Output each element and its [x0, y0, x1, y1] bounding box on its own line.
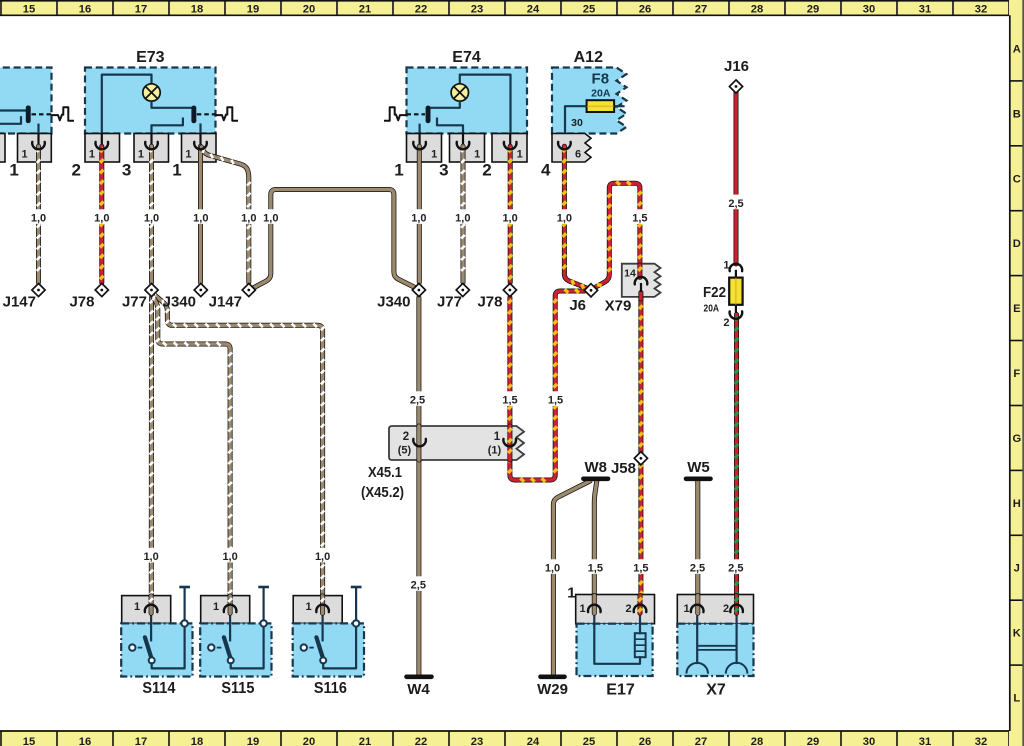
ground point W29 bar [541, 674, 565, 679]
svg-text:F: F [1013, 368, 1020, 380]
svg-text:32: 32 [975, 3, 987, 15]
svg-text:H: H [1013, 498, 1021, 510]
wire over X45.1 (red/yellow segment) [507, 426, 512, 460]
wire: E73 pin3 to J340 (brown) [198, 146, 203, 282]
svg-text:21: 21 [359, 3, 371, 15]
svg-text:1,0: 1,0 [455, 213, 470, 225]
E17 pin 1 cup [588, 605, 601, 612]
svg-text:15: 15 [23, 736, 35, 746]
node J78 (left) [95, 283, 108, 296]
svg-text:J77: J77 [122, 294, 147, 311]
ground point W8 bar [583, 476, 608, 481]
flasher pulse symbol (E74) [385, 107, 407, 121]
svg-text:32: 32 [975, 736, 987, 746]
svg-text:B: B [1013, 108, 1021, 120]
switch module pin box (partial) [0, 134, 5, 163]
node J58 [634, 452, 647, 465]
svg-text:14: 14 [624, 268, 636, 280]
svg-text:26: 26 [639, 736, 651, 746]
E74 contact line from pin 1 [419, 125, 421, 146]
flasher pulse symbol (left module) [52, 107, 74, 121]
svg-text:C: C [1013, 173, 1021, 185]
svg-text:1: 1 [683, 603, 689, 615]
svg-text:1: 1 [474, 149, 480, 161]
svg-text:1,0: 1,0 [144, 213, 159, 225]
svg-text:E17: E17 [606, 682, 635, 699]
svg-text:1,0: 1,0 [263, 213, 278, 225]
svg-text:A12: A12 [574, 49, 603, 66]
svg-text:E: E [1013, 303, 1021, 315]
wire: bridge J147 to J340 (brown) [254, 190, 416, 289]
S115 wire tip [228, 596, 233, 613]
svg-text:J: J [1014, 563, 1020, 575]
svg-text:J78: J78 [69, 294, 94, 311]
svg-text:G: G [1012, 433, 1021, 445]
svg-text:29: 29 [807, 3, 819, 15]
svg-text:X7: X7 [706, 682, 726, 699]
S114 wire tip [149, 596, 154, 613]
A12 pin 6 cup [558, 142, 571, 149]
lamp unit E17 [576, 595, 655, 677]
svg-text:A: A [1013, 44, 1021, 56]
svg-text:17: 17 [135, 3, 147, 15]
E74 pin 2 cup [504, 142, 517, 149]
svg-text:23: 23 [471, 736, 483, 746]
wire: J78 through X45.1 pin1, loop up to J6 (red/yellow) [510, 291, 585, 480]
svg-text:1,5: 1,5 [502, 395, 517, 407]
svg-text:J340: J340 [163, 294, 196, 311]
wire: E73 pin3 diagonal to J147 (brown/white) [202, 147, 249, 283]
X45.1 pin 2 contact cup [413, 439, 426, 446]
switch module dashed actuation link [32, 113, 52, 115]
svg-text:20A: 20A [704, 303, 720, 315]
svg-text:S115: S115 [221, 680, 254, 697]
E74 indicator lamp [451, 84, 468, 101]
turn-signal switch E74 [407, 68, 528, 134]
svg-text:J340: J340 [377, 294, 410, 311]
E73 pin 3 cup [194, 142, 207, 149]
E73 indicator lamp wire to pin 1 [102, 75, 152, 146]
svg-text:31: 31 [919, 3, 931, 15]
svg-text:20A: 20A [591, 88, 611, 100]
E73 contact line from pin 3 [199, 125, 201, 147]
svg-text:30: 30 [863, 3, 875, 15]
svg-text:22: 22 [415, 736, 427, 746]
svg-text:J78: J78 [477, 294, 502, 311]
S116 wire tip [320, 596, 325, 613]
X7 pin2 wire tip [734, 596, 739, 614]
svg-text:2,5: 2,5 [410, 395, 425, 407]
E73 fixed contact from pin 2 [152, 119, 183, 146]
wire: X79 down through J58 to E17 pin2 (red/yellow) [638, 293, 643, 614]
svg-text:1,5: 1,5 [633, 563, 648, 575]
node J78 (second) [503, 283, 516, 296]
switch module fixed contact with tick [0, 117, 21, 124]
svg-text:1,0: 1,0 [193, 213, 208, 225]
svg-text:28: 28 [751, 3, 763, 15]
E73 dashed actuation link [197, 113, 216, 115]
svg-text:1: 1 [394, 161, 403, 180]
svg-text:24: 24 [527, 3, 540, 15]
wire: J340 down through X45.1 pin2 to ground W4 (brown) [416, 298, 421, 675]
F22 bottom contact cup [735, 305, 737, 313]
top ruler grid band [0, 0, 1024, 16]
connector X79 pin 14 (torn) [622, 264, 661, 297]
svg-text:2,5: 2,5 [411, 580, 426, 592]
wire: E74 pin3 to J77 (brown/white) [461, 146, 466, 282]
svg-text:2: 2 [625, 603, 631, 615]
svg-text:1,0: 1,0 [222, 551, 237, 563]
svg-text:2,5: 2,5 [690, 563, 705, 575]
svg-text:W5: W5 [687, 459, 710, 476]
svg-text:27: 27 [695, 736, 707, 746]
svg-text:2,5: 2,5 [728, 563, 743, 575]
svg-text:2: 2 [403, 431, 409, 443]
svg-text:1: 1 [138, 149, 144, 161]
E74 pin box 1 [407, 134, 442, 163]
node J147 (left) [32, 283, 45, 296]
svg-text:W4: W4 [407, 681, 430, 698]
svg-text:X45.1: X45.1 [368, 464, 402, 481]
svg-text:31: 31 [919, 736, 931, 746]
svg-text:1: 1 [213, 601, 219, 613]
svg-text:18: 18 [191, 736, 203, 746]
bottom ruler grid band [0, 730, 1024, 746]
connector X45.1 (X45.2) [389, 426, 524, 460]
svg-text:20: 20 [303, 3, 315, 15]
switch module pin 1 contact line [37, 125, 39, 134]
wire over X45.1 (brown W4 segment) [416, 426, 421, 460]
svg-text:1,5: 1,5 [588, 563, 603, 575]
svg-text:16: 16 [79, 3, 91, 15]
svg-text:30: 30 [571, 117, 583, 129]
wire: J77 to S116 (brown/white) [152, 293, 323, 614]
node J77 (left) [145, 283, 158, 296]
svg-text:X79: X79 [605, 298, 632, 315]
wire: W8 to W29 (brown) [553, 481, 590, 675]
svg-text:1,0: 1,0 [411, 213, 426, 225]
svg-text:3: 3 [439, 161, 448, 180]
wire: E73 pin2 to J77 (brown/white) [149, 146, 154, 282]
wire: W8 to E17 pin1 (brown) [594, 481, 597, 614]
svg-text:1,0: 1,0 [315, 551, 330, 563]
fuse box A12 (torn right edge) [552, 68, 627, 134]
node J6 [584, 284, 597, 297]
svg-text:J6: J6 [569, 297, 586, 314]
node J340 (left) [194, 283, 207, 296]
svg-text:21: 21 [359, 736, 371, 746]
svg-text:J147: J147 [3, 294, 36, 311]
svg-text:1: 1 [567, 585, 575, 602]
S115 pin contact cup [224, 605, 237, 612]
wire: J77 to S115 (brown/white) [152, 295, 230, 614]
E17 pin2 wire tip [638, 596, 643, 614]
right letter column band [1009, 0, 1024, 746]
svg-text:20: 20 [303, 736, 315, 746]
svg-text:18: 18 [191, 3, 203, 15]
svg-text:2: 2 [71, 161, 80, 180]
E74 pin box 3 [450, 134, 485, 163]
svg-text:4: 4 [541, 161, 551, 180]
svg-text:1,0: 1,0 [502, 213, 517, 225]
E17 pin1 wire tip [592, 596, 597, 614]
svg-text:22: 22 [415, 3, 427, 15]
svg-text:J77: J77 [437, 294, 462, 311]
X7 pin 2 cup [730, 605, 743, 612]
E74 pin box 2 [492, 134, 527, 163]
svg-text:17: 17 [135, 736, 147, 746]
svg-text:23: 23 [471, 3, 483, 15]
wire: left module pin to J147 (brown/white) [36, 146, 41, 282]
flasher pulse symbol (E73) [216, 107, 238, 121]
svg-text:27: 27 [695, 3, 707, 15]
wire: J16 to fuse F22 (red) [734, 93, 739, 265]
svg-text:2: 2 [723, 317, 729, 329]
svg-text:1,5: 1,5 [548, 395, 563, 407]
E74 dashed actuation link [407, 113, 426, 115]
svg-text:19: 19 [247, 736, 259, 746]
E73 pin box 3 [182, 134, 217, 163]
E74 indicator lamp wire to pin 2 [460, 75, 511, 146]
X45.1 pin 1 contact cup [503, 439, 516, 446]
svg-text:1,0: 1,0 [143, 551, 158, 563]
svg-text:1: 1 [517, 149, 523, 161]
wire into X79 (red/yellow tip) [637, 265, 642, 277]
svg-text:K: K [1013, 628, 1021, 640]
E73 lamp to switch bar line [152, 101, 192, 108]
svg-text:1: 1 [579, 603, 585, 615]
svg-text:F8: F8 [592, 71, 610, 88]
svg-text:1,0: 1,0 [31, 213, 46, 225]
door contact switch S114 [121, 587, 192, 677]
svg-text:15: 15 [23, 3, 35, 15]
ground point W4 bar [407, 674, 432, 679]
svg-text:1: 1 [134, 601, 140, 613]
svg-text:1: 1 [89, 149, 95, 161]
wire: A12 pin 4 to J6 (red/yellow) [564, 146, 586, 287]
svg-text:1,5: 1,5 [632, 213, 647, 225]
wire: E74 pin1 to J340 (brown) [417, 146, 422, 282]
svg-text:(1): (1) [488, 445, 502, 457]
svg-text:2: 2 [482, 161, 491, 180]
svg-text:S116: S116 [314, 680, 347, 697]
fuse F22 body [729, 278, 742, 305]
wire: E73 pin1 to J78 (red/yellow) [99, 146, 104, 282]
E74 pin 3 cup [457, 142, 470, 149]
svg-text:1,0: 1,0 [557, 213, 572, 225]
svg-text:F22: F22 [703, 284, 726, 301]
svg-text:1,0: 1,0 [94, 213, 109, 225]
left module pin cup [32, 142, 45, 149]
switch module pin box 1 [18, 134, 52, 163]
svg-text:25: 25 [583, 3, 595, 15]
switch module internal contact line [0, 109, 26, 111]
E73 pin box 1 [85, 134, 120, 163]
svg-text:2,5: 2,5 [728, 198, 743, 210]
E74 lamp to switch bar line [431, 101, 460, 108]
svg-text:1: 1 [9, 161, 18, 180]
E73 pin 1 cup [96, 142, 109, 149]
svg-text:6: 6 [575, 148, 581, 160]
E74 pin 1 cup [413, 142, 426, 149]
svg-text:16: 16 [79, 736, 91, 746]
svg-text:J58: J58 [611, 460, 636, 477]
svg-text:J16: J16 [724, 58, 749, 75]
E73 pin 2 cup [145, 142, 158, 149]
S114 pin contact cup [145, 605, 158, 612]
E17 pin 2 cup [634, 605, 647, 612]
door contact switch S115 [200, 587, 271, 677]
svg-text:W29: W29 [537, 681, 568, 698]
svg-text:W8: W8 [584, 459, 607, 476]
wire: J77 to S114 (brown/white) [149, 298, 154, 614]
svg-text:1: 1 [172, 161, 181, 180]
node J147 (second) [242, 283, 255, 296]
switch module movable contact bar [26, 106, 31, 124]
svg-text:2: 2 [723, 603, 729, 615]
svg-text:E73: E73 [136, 49, 165, 66]
E73 pin box 2 [134, 134, 169, 163]
S116 pin contact cup [316, 605, 329, 612]
svg-text:(5): (5) [398, 445, 412, 457]
svg-text:D: D [1013, 238, 1021, 250]
wire: F22 to X7 pin2 (red/green) [734, 315, 739, 614]
wire: W5 to X7 pin1 (brown) [695, 481, 700, 614]
E73 indicator lamp [143, 84, 160, 101]
svg-text:(X45.2): (X45.2) [361, 484, 404, 501]
wire: J6 up and over to X79 pin 14 (red/yellow) [596, 183, 640, 287]
svg-text:1: 1 [185, 149, 191, 161]
svg-text:30: 30 [863, 736, 875, 746]
svg-text:1,0: 1,0 [241, 213, 256, 225]
door contact switch S116 [293, 587, 364, 677]
E74 movable contact bar [426, 106, 431, 124]
F22 top contact cup [730, 264, 743, 271]
svg-text:1: 1 [494, 431, 501, 443]
svg-text:24: 24 [527, 736, 540, 746]
svg-text:1,0: 1,0 [545, 563, 560, 575]
ground point W5 bar [686, 476, 711, 481]
node J77 (second) [456, 283, 469, 296]
A12 pin box (torn) [552, 134, 591, 163]
fuse F8 [587, 100, 615, 112]
wire: E74 pin2 to J78 (red/yellow) [508, 146, 513, 282]
svg-text:26: 26 [639, 3, 651, 15]
E74 fixed contact from pin 3 [437, 119, 463, 146]
svg-text:25: 25 [583, 736, 595, 746]
svg-text:19: 19 [247, 3, 259, 15]
F8 wire to terminal 30 [565, 106, 587, 141]
svg-text:1: 1 [431, 149, 437, 161]
X7 pin 1 cup [691, 605, 704, 612]
svg-text:3: 3 [122, 161, 131, 180]
X79 contact cup [635, 277, 648, 284]
node J340 (second) [412, 283, 425, 296]
svg-text:1: 1 [305, 601, 311, 613]
E73 movable contact bar [191, 106, 196, 124]
switch module (partial, cut at left edge) [0, 68, 52, 134]
svg-text:29: 29 [807, 736, 819, 746]
svg-text:28: 28 [751, 736, 763, 746]
svg-text:L: L [1013, 693, 1020, 705]
svg-text:S114: S114 [142, 680, 175, 697]
svg-text:1: 1 [21, 149, 27, 161]
svg-text:J147: J147 [209, 294, 242, 311]
wire out of X79 (red/yellow tip) [638, 293, 643, 300]
turn-signal switch E73 [85, 68, 216, 134]
trailer socket X7 [677, 595, 753, 677]
X7 pin1 wire tip [695, 596, 700, 614]
svg-text:E74: E74 [452, 49, 481, 66]
